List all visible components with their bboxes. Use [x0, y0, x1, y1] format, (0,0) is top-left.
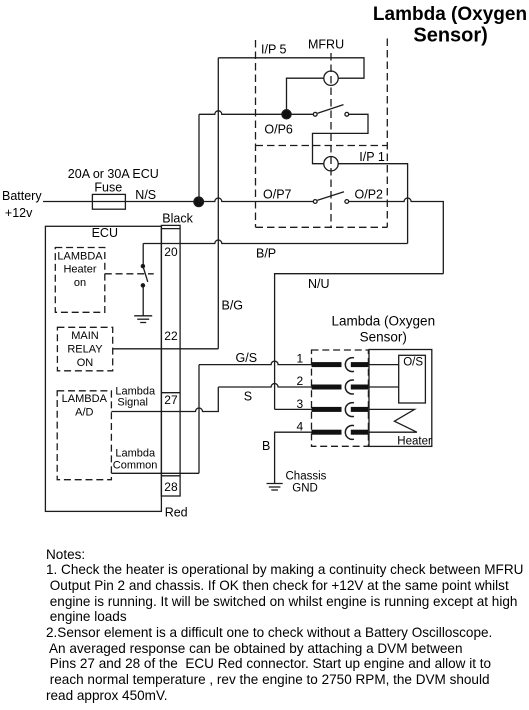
svg-text:O/P6: O/P6 — [264, 122, 293, 136]
svg-text:4: 4 — [297, 420, 304, 434]
wire I/P5 horizontal — [218, 58, 364, 78]
switch S2 right contact — [345, 200, 349, 204]
wire sensor pin4 to chassis ground — [275, 432, 312, 483]
svg-text:20: 20 — [164, 245, 178, 259]
svg-text:O/P2: O/P2 — [355, 188, 384, 202]
svg-text:Common: Common — [113, 459, 158, 471]
svg-text:3: 3 — [297, 397, 304, 411]
switch S2 left contact — [313, 200, 317, 204]
svg-text:I/P 1: I/P 1 — [359, 150, 385, 164]
connector divider pin27 — [161, 392, 180, 394]
wire coil1 left — [287, 78, 324, 114]
svg-text:B/G: B/G — [222, 299, 244, 313]
svg-text:Chassis: Chassis — [286, 471, 327, 483]
svg-text:Black: Black — [162, 212, 193, 226]
ECU switch blade — [143, 267, 148, 282]
pin 1 bar — [312, 362, 342, 367]
pin 4 bar — [312, 430, 342, 435]
svg-text:I/P 5: I/P 5 — [261, 43, 287, 57]
svg-text:20A or 30A ECU: 20A or 30A ECU — [68, 167, 159, 181]
svg-text:N/U: N/U — [308, 277, 330, 291]
svg-text:Sensor): Sensor) — [360, 330, 407, 345]
pin 3 bullet — [345, 403, 354, 417]
LAMBDA Heater on dashed box — [55, 248, 105, 313]
MFRU relay linkage dashed line — [330, 53, 332, 227]
switch S2 blade — [318, 192, 345, 201]
wire switch1 output — [313, 114, 369, 156]
pin 2 bullet — [345, 380, 354, 394]
svg-text:N/S: N/S — [135, 188, 156, 202]
svg-text:on: on — [74, 277, 86, 289]
wire N/S fuse to junction — [125, 201, 198, 203]
connector divider pin20 — [161, 228, 180, 230]
connector pin bars and bullet contacts — [312, 362, 369, 435]
svg-text:LAMBDA: LAMBDA — [62, 393, 108, 405]
node battery junction dot — [194, 197, 204, 207]
MAIN RELAY ON dashed box — [57, 327, 112, 371]
LAMBDA A/D dashed box — [57, 391, 111, 480]
wire O/P6 to switch1 — [291, 113, 313, 115]
dashed actuator line ECU switch — [105, 273, 154, 275]
wire coil2 left stub — [313, 157, 324, 164]
fuse F1 body — [92, 194, 125, 209]
O/S inner box — [399, 355, 426, 403]
svg-text:27: 27 — [164, 393, 178, 407]
connector divider pin28 — [161, 475, 180, 477]
wire N/U riser to pin3 — [275, 408, 312, 410]
svg-text:Signal: Signal — [117, 397, 148, 409]
sensor internal wire pin1 to O/S — [368, 364, 398, 366]
wire N/U horizontal — [275, 274, 444, 410]
svg-text:B: B — [262, 439, 270, 453]
svg-text:B/P: B/P — [256, 247, 276, 261]
ECU switch top contact — [141, 265, 144, 268]
svg-text:Sensor): Sensor) — [413, 25, 487, 47]
wire I/P1 from coil2 to riser — [338, 164, 407, 244]
switch S1 left contact — [313, 112, 317, 116]
wire G/S riser with hop over pin27 wire — [198, 365, 200, 474]
pin 1 bullet — [345, 358, 354, 372]
svg-text:2: 2 — [297, 374, 304, 388]
svg-text:RELAY: RELAY — [67, 343, 103, 355]
svg-text:LAMBDA: LAMBDA — [57, 250, 103, 262]
chassis ground symbol — [267, 484, 283, 491]
svg-text:Lambda (Oxygen: Lambda (Oxygen — [332, 314, 436, 329]
notes text block — [46, 547, 523, 704]
svg-text:GND: GND — [292, 483, 318, 495]
wire S to sensor pin2 with hop — [218, 384, 311, 387]
MFRU dashed divider — [256, 145, 388, 147]
relay coil U1 MFRU — [324, 71, 338, 85]
svg-text:Heater: Heater — [63, 264, 96, 276]
heater element zigzag — [368, 409, 417, 432]
relay coil U2 MFRU — [324, 157, 338, 171]
wire Lambda Common pin28 — [111, 472, 199, 474]
svg-text:MAIN: MAIN — [71, 330, 99, 342]
svg-text:Lambda: Lambda — [115, 448, 156, 460]
svg-text:Lambda (Oxygen: Lambda (Oxygen — [373, 4, 527, 25]
wire N/S to O/P7 with hop — [199, 198, 314, 202]
svg-text:+12v: +12v — [5, 206, 33, 220]
svg-text:O/S: O/S — [403, 356, 423, 368]
wire B/P pin20 with hop over B/G — [143, 240, 407, 243]
wire O/P6 horizontal from fuse riser — [199, 111, 282, 114]
wire O/P2 with hop over I/P1 riser — [349, 198, 444, 274]
wire junction riser up — [198, 114, 200, 201]
wire G/S to sensor pin1 with hop — [199, 361, 312, 365]
MFRU dashed box bottom border — [256, 226, 388, 228]
svg-text:G/S: G/S — [236, 351, 258, 365]
pin 3 bar — [312, 407, 342, 412]
wire through fuse — [92, 201, 125, 203]
ECU switch wire to ground — [142, 286, 144, 315]
node O/P6 junction dot — [282, 110, 291, 119]
svg-text:A/D: A/D — [75, 406, 93, 418]
sensor internal wire pin2 to O/S — [368, 386, 398, 388]
svg-text:Battery: Battery — [2, 189, 42, 203]
MFRU dashed box right border — [386, 39, 388, 228]
wire B/G vertical — [217, 58, 219, 349]
svg-text:Heater: Heater — [397, 436, 432, 448]
wire battery to fuse — [43, 201, 92, 203]
svg-text:MFRU: MFRU — [308, 37, 344, 51]
svg-text:Red: Red — [165, 506, 188, 520]
ECU box — [45, 226, 161, 511]
svg-text:ECU: ECU — [92, 226, 118, 240]
ECU connector strip — [161, 225, 180, 496]
ECU heater switch wire top — [142, 244, 144, 265]
svg-text:22: 22 — [164, 329, 178, 343]
svg-text:Lambda: Lambda — [115, 385, 156, 397]
switch S1 blade — [318, 105, 344, 114]
Lambda sensor body box — [369, 350, 432, 447]
ECU internal ground — [134, 316, 152, 323]
svg-text:ON: ON — [77, 357, 94, 369]
svg-text:Fuse: Fuse — [94, 180, 122, 194]
svg-text:1: 1 — [297, 351, 304, 365]
svg-text:28: 28 — [164, 480, 178, 494]
wire Lambda Signal pin27 with hop — [111, 387, 218, 412]
svg-text:O/P7: O/P7 — [263, 188, 292, 202]
wire pin22 to B/G — [113, 348, 219, 350]
pin 2 bar — [312, 385, 342, 390]
switch S1 right contact — [345, 112, 349, 116]
pin 4 bullet — [345, 425, 354, 439]
MFRU dashed box left border — [255, 40, 257, 227]
ECU switch bottom contact — [141, 284, 144, 287]
Lambda sensor connector dashed box — [312, 350, 369, 446]
svg-text:S: S — [244, 390, 252, 404]
